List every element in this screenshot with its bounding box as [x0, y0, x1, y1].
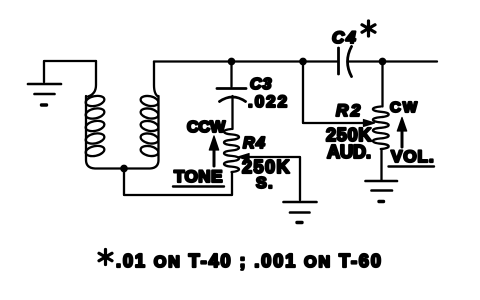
- label C3: [250, 76, 272, 93]
- transformer secondary winding L2: [124, 62, 159, 169]
- transformer primary winding L1: [85, 61, 124, 169]
- capacitor C4: [339, 47, 352, 77]
- label C4: [332, 28, 358, 47]
- node junction R2 wiper branch: [300, 59, 305, 64]
- ground G1 top-left: [28, 84, 61, 105]
- annotation CCW: [187, 119, 226, 136]
- annotation CW: [390, 99, 419, 116]
- wire R2 wiper branch: [303, 62, 365, 124]
- node junction R2 top branch: [380, 59, 385, 64]
- label R2: [336, 101, 363, 120]
- node junction transformer bottom: [121, 166, 126, 171]
- potentiometer R4 body: [224, 129, 239, 172]
- potentiometer R4 wiper arrow and wire to ground: [238, 154, 300, 200]
- label .022: [248, 92, 289, 111]
- potentiometer R2 wiper arrowhead: [364, 120, 375, 127]
- capacitor C3: [217, 62, 246, 130]
- ground G2 below R4 wiper: [284, 202, 317, 223]
- wire top rail left of C4: [154, 60, 337, 62]
- asterisk footnote marker: [99, 250, 112, 265]
- label 250K (R2): [326, 125, 372, 145]
- svg-text:AUD.: AUD.: [327, 142, 371, 162]
- svg-text:C4: C4: [332, 28, 358, 47]
- node junction C3 branch: [229, 59, 234, 64]
- annotation arrow up (tone): [209, 136, 218, 166]
- svg-text:.01 ON T-40 ; .001 ON T-60: .01 ON T-40 ; .001 ON T-60: [116, 251, 383, 271]
- svg-text:.022: .022: [248, 92, 289, 111]
- annotation arrow up (vol): [397, 118, 406, 148]
- svg-text:R4: R4: [243, 135, 266, 152]
- wire top rail right of C4: [349, 60, 437, 62]
- asterisk by C4: [362, 21, 375, 36]
- label 250K (R4): [242, 157, 291, 177]
- footnote text .01 ON T-40 ; .001 ON T-60: [116, 251, 383, 271]
- svg-text:250K: 250K: [242, 157, 291, 177]
- svg-text:S.: S.: [256, 175, 274, 192]
- wire ground lead top-left: [44, 61, 96, 82]
- wire transformer bottom to R4 bottom: [124, 169, 232, 196]
- svg-text:VOL.: VOL.: [391, 147, 435, 166]
- ground G3 below R2: [366, 181, 398, 202]
- label TONE underlined: [173, 167, 224, 187]
- label R4: [243, 135, 266, 152]
- label AUD.: [327, 142, 371, 162]
- label S.: [256, 175, 274, 192]
- svg-text:R2: R2: [336, 101, 363, 120]
- potentiometer R2 body: [373, 107, 389, 181]
- svg-text:CW: CW: [390, 99, 419, 116]
- svg-text:TONE: TONE: [174, 167, 223, 186]
- label VOL. underlined: [389, 147, 435, 167]
- wire R2 top branch: [381, 62, 383, 107]
- svg-text:C3: C3: [250, 76, 272, 93]
- svg-text:CCW: CCW: [187, 119, 226, 136]
